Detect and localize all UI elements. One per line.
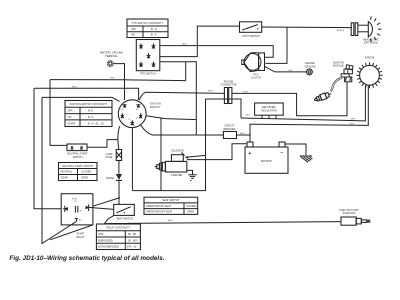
wire battery negative to ground bbox=[285, 144, 306, 155]
ignition module bbox=[333, 61, 353, 81]
svg-text:PTO SWITCH CONTINUITY: PTO SWITCH CONTINUITY bbox=[132, 22, 164, 25]
svg-text:PUR: PUR bbox=[110, 78, 115, 80]
svg-text:BLACK: BLACK bbox=[337, 29, 345, 32]
svg-text:OPEN: OPEN bbox=[81, 177, 88, 180]
battery ground terminal bbox=[100, 52, 123, 67]
svg-text:OPERATOR ON SEAT: OPERATOR ON SEAT bbox=[146, 205, 172, 208]
ignition switch bbox=[118, 100, 162, 135]
wire solenoid feed with arrow bbox=[186, 155, 206, 157]
svg-text:BREAKER: BREAKER bbox=[224, 128, 236, 131]
wire battery cable starter to battery bbox=[187, 144, 247, 160]
svg-text:OFF: OFF bbox=[131, 28, 136, 31]
rectifier-regulator bbox=[255, 103, 284, 119]
ignition switch continuity table bbox=[65, 101, 112, 127]
svg-text:SEAT SWITCH: SEAT SWITCH bbox=[162, 199, 179, 202]
wire relay leader upper bbox=[93, 198, 120, 207]
svg-text:IGNITION SWITCH CONTINUITY: IGNITION SWITCH CONTINUITY bbox=[70, 103, 108, 106]
svg-text:FUSE: FUSE bbox=[106, 156, 113, 159]
wire branch down from ignition M wire bbox=[160, 118, 162, 191]
wire PURPLE feed to ignition switch bbox=[50, 80, 186, 81]
svg-text:−: − bbox=[280, 150, 283, 155]
wire PTO clutch to engine ground bbox=[265, 66, 307, 72]
svg-text:(OPTIONAL): (OPTIONAL) bbox=[364, 42, 378, 45]
svg-text:OPERATOR OFF SEAT: OPERATOR OFF SEAT bbox=[146, 211, 173, 214]
wire start loop to solenoid bbox=[132, 99, 205, 191]
svg-text:NEUTRAL START SWITCH: NEUTRAL START SWITCH bbox=[62, 165, 93, 168]
svg-text:RELAY: RELAY bbox=[76, 236, 84, 239]
ground battery bbox=[300, 156, 312, 162]
svg-text:WHT: WHT bbox=[243, 91, 249, 93]
spark plug wire bbox=[331, 78, 343, 92]
seat switch table bbox=[144, 197, 198, 214]
PTO clutch bbox=[242, 53, 265, 80]
svg-text:30 - (87): 30 - (87) bbox=[128, 239, 138, 242]
wire fuse to diode bbox=[118, 161, 120, 174]
wire light switch to headlight connector bbox=[262, 26, 352, 29]
solenoid bbox=[171, 150, 185, 162]
wire left rail to start relay bbox=[34, 88, 61, 209]
wire bypass around connector to solenoid bbox=[206, 99, 242, 118]
wire circuit breaker left bbox=[161, 134, 223, 136]
svg-text:COIL: COIL bbox=[98, 233, 104, 236]
wire left rail to neutral start switch bbox=[50, 80, 67, 146]
svg-text:ON: ON bbox=[131, 34, 135, 37]
svg-text:CONNECTOR: CONNECTOR bbox=[220, 84, 236, 87]
svg-text:B - A: B - A bbox=[88, 116, 94, 119]
svg-text:B - A - S1 - S2: B - A - S1 - S2 bbox=[88, 122, 104, 125]
svg-text:RED: RED bbox=[240, 133, 245, 135]
seat switch bbox=[114, 204, 135, 220]
wire ignition S down bbox=[131, 128, 133, 191]
svg-text:TERMINAL: TERMINAL bbox=[105, 55, 118, 58]
wire diode to seat switch bbox=[118, 181, 120, 205]
svg-text:M-G: M-G bbox=[88, 110, 93, 113]
wire PTO middle terminal to light switch bbox=[160, 26, 240, 56]
svg-text:MODULE: MODULE bbox=[333, 65, 344, 68]
wire ignition M right side bbox=[146, 116, 196, 120]
headlight connector bbox=[351, 23, 358, 36]
wire seat switch to fuel solenoid bbox=[105, 215, 342, 223]
wire engine connector to ignition module bbox=[232, 82, 347, 116]
svg-text:WHT: WHT bbox=[350, 123, 356, 125]
PTO switch continuity table bbox=[127, 19, 168, 38]
wire connector to headlight bbox=[358, 24, 369, 26]
svg-text:SWITCH: SWITCH bbox=[150, 106, 160, 109]
svg-text:WHT: WHT bbox=[72, 86, 78, 88]
svg-text:OFF: OFF bbox=[68, 110, 73, 113]
svg-text:G: G bbox=[129, 119, 131, 121]
svg-text:B - N: B - N bbox=[151, 28, 157, 31]
svg-text:+: + bbox=[248, 151, 251, 157]
wire relay leader bbox=[50, 225, 93, 240]
neutral start switch table bbox=[59, 163, 98, 181]
spark plug bbox=[314, 91, 333, 103]
fuel shut-off solenoid bbox=[339, 209, 370, 225]
battery bbox=[245, 142, 288, 173]
svg-text:BLK: BLK bbox=[246, 115, 251, 117]
svg-text:STARTER: STARTER bbox=[171, 174, 183, 177]
wire BLK bus to stator bbox=[241, 86, 365, 121]
svg-text:START: START bbox=[68, 122, 76, 125]
svg-text:GEAR: GEAR bbox=[61, 177, 68, 180]
svg-text:NON-ENERGIZED: NON-ENERGIZED bbox=[98, 246, 119, 249]
svg-text:ENERGIZED: ENERGIZED bbox=[98, 239, 113, 242]
svg-text:LIGHT SWITCH: LIGHT SWITCH bbox=[242, 35, 260, 38]
relay continuity table bbox=[96, 224, 140, 250]
svg-text:WHT: WHT bbox=[351, 119, 357, 121]
wire ignition B feed bbox=[42, 97, 120, 101]
wire battery ground terminal to ignition switch bbox=[113, 64, 124, 100]
diode bbox=[106, 174, 122, 180]
svg-text:WHT: WHT bbox=[208, 91, 214, 93]
wire circuit breaker to battery bbox=[237, 134, 251, 136]
engine connector bbox=[220, 80, 236, 103]
svg-text:CLOSED: CLOSED bbox=[81, 171, 91, 174]
svg-text:RED: RED bbox=[168, 220, 173, 222]
wire neutral start switch to fuse wire bbox=[87, 140, 117, 148]
svg-text:CLOSED: CLOSED bbox=[186, 205, 196, 208]
svg-text:OPEN: OPEN bbox=[187, 211, 194, 214]
svg-text:SOLENOID: SOLENOID bbox=[171, 150, 184, 153]
svg-text:STATOR: STATOR bbox=[365, 56, 375, 59]
svg-text:DIODE: DIODE bbox=[106, 177, 114, 180]
svg-text:Fig. JD1-10–Wiring schematic t: Fig. JD1-10–Wiring schematic typical of … bbox=[9, 255, 164, 262]
PTO switch bbox=[136, 40, 160, 76]
starter bbox=[155, 161, 187, 176]
svg-text:NEUTRAL: NEUTRAL bbox=[61, 171, 73, 174]
neutral start switch bbox=[67, 144, 88, 159]
svg-text:B - A: B - A bbox=[151, 34, 157, 37]
stator bbox=[357, 56, 383, 88]
svg-text:SOLENOID: SOLENOID bbox=[343, 212, 356, 215]
headlights (optional) bbox=[363, 16, 381, 44]
svg-text:87A - 30: 87A - 30 bbox=[127, 246, 137, 249]
svg-text:A M: A M bbox=[136, 117, 141, 120]
wire stator second lead to battery bbox=[250, 86, 368, 142]
svg-text:PTO SWITCH: PTO SWITCH bbox=[140, 73, 156, 76]
wire relay to seat switch bbox=[89, 207, 114, 209]
wire ignition to 1 amp fuse bbox=[118, 126, 120, 149]
wire branch PTO to purple rail bbox=[185, 62, 187, 81]
wire branch down to PTO clutch bbox=[266, 27, 288, 63]
light switch bbox=[240, 22, 262, 38]
wire left rail to relay coil bbox=[42, 97, 76, 243]
wire WHT top rail bbox=[34, 88, 139, 100]
wire PTO bottom terminal down to ignition feed bbox=[160, 62, 197, 135]
engine ground terminal bbox=[304, 62, 315, 75]
svg-text:GROUND: GROUND bbox=[304, 65, 315, 68]
svg-text:ON: ON bbox=[68, 116, 72, 119]
svg-text:RELAY CONTINUITY: RELAY CONTINUITY bbox=[107, 227, 131, 230]
wire ignition A to engine connector bbox=[139, 92, 225, 100]
ground starter bbox=[188, 175, 196, 181]
junction dots bbox=[160, 134, 162, 136]
svg-text:SEAT SWITCH: SEAT SWITCH bbox=[116, 217, 133, 220]
svg-text:SWITCH: SWITCH bbox=[73, 156, 83, 159]
svg-text:BATTERY: BATTERY bbox=[261, 160, 273, 163]
svg-text:REGULATOR: REGULATOR bbox=[261, 110, 277, 113]
wire PTO top terminal to PTO clutch bbox=[160, 46, 273, 58]
wire starter to ground bbox=[187, 170, 193, 175]
svg-text:BLK: BLK bbox=[289, 70, 294, 72]
circuit breaker bbox=[223, 125, 236, 139]
svg-text:CLUTCH: CLUTCH bbox=[251, 77, 261, 80]
svg-text:86 - 85: 86 - 85 bbox=[128, 233, 136, 236]
start relay bbox=[61, 194, 93, 239]
svg-text:RED: RED bbox=[182, 44, 187, 46]
1 amp fuse bbox=[105, 150, 121, 161]
